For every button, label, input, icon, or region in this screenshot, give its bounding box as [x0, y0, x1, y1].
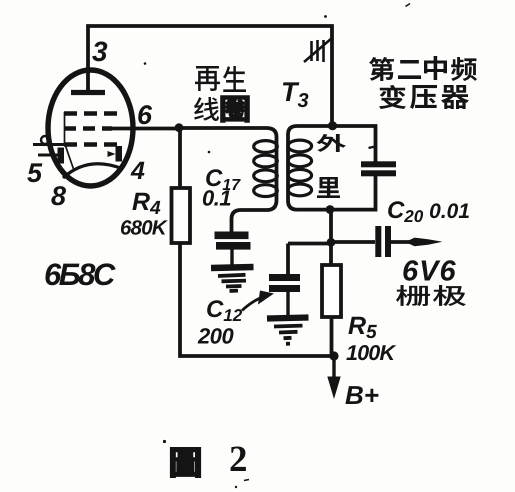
resistor R5 100K body: [322, 265, 341, 317]
label 0.1: [203, 190, 230, 206]
arrow: C12 label pointer: [242, 297, 263, 311]
B+ arrow: [332, 356, 335, 378]
capacitor C17 0.1 plates: [215, 232, 249, 240]
node A junction dot: [175, 123, 184, 132]
pin 8 label: [51, 186, 66, 205]
label R5: [348, 317, 376, 338]
T3 tank capacitor plates: [361, 161, 396, 167]
wire: junction A down to R4: [178, 128, 182, 188]
capacitor C12 200 plates: [269, 274, 300, 281]
tube grid dashed row 2 (control grid): [64, 126, 112, 130]
IF transformer T3 winding (right) with tank capacitor: [288, 126, 376, 210]
wire: C17 to ground: [230, 249, 233, 265]
char 6: [410, 85, 437, 109]
wire: down to C12: [286, 244, 290, 275]
char 4: [221, 96, 249, 122]
char 5: [379, 85, 406, 109]
pin 5 label: [27, 163, 42, 182]
label li (inner): [317, 177, 340, 198]
wire: R4 bottom down and along bottom rail to B+ node: [180, 243, 334, 356]
tube plate (anode) bar: [71, 90, 105, 95]
node: T3 bottom junction dot: [326, 205, 335, 214]
wire: node B left to C12: [288, 242, 331, 246]
label zaisheng-xianquan (regen coil) char 1: [195, 66, 220, 91]
tube type label 6B8C: [45, 263, 115, 285]
char 4: [451, 57, 477, 81]
wire: pin6 (control grid) to junction A: [108, 127, 179, 131]
char 2: [223, 66, 246, 92]
pin 4 label: [131, 162, 145, 179]
wire: C12 to ground: [286, 292, 289, 315]
grid-cap lead (row3 to left, with curl): [33, 143, 64, 146]
caption figure number 2: [231, 447, 246, 471]
tube grid dashed row 3: [64, 142, 117, 146]
wire: C20 to 6V6 grid arrow: [391, 240, 416, 244]
tube V1 6B8C envelope: [48, 70, 133, 186]
regeneration coil L1 (left winding): [179, 128, 277, 232]
node: B+ junction dot: [329, 351, 338, 360]
label 2nd IF transformer char 1: [369, 57, 394, 81]
print speck top right: [406, 4, 411, 7]
wire: R5 bottom to B+ node: [330, 317, 334, 356]
capacitor C20 0.01 plates: [375, 226, 381, 257]
tube grid dashed row 1: [64, 111, 117, 115]
label C12: [207, 300, 242, 321]
char 3: [194, 97, 219, 121]
label 6V6: [403, 260, 455, 281]
left diode plate (pin5): [58, 148, 65, 164]
ground (C12): [267, 318, 309, 319]
resistor R4 680K body: [172, 188, 191, 243]
label C17: [206, 169, 241, 190]
wire: T3 bottom down to node B: [329, 210, 333, 243]
pin 3 label: [92, 41, 107, 61]
label T3: [283, 82, 308, 107]
label grid char 1: [396, 285, 430, 306]
print speck near caption: [163, 440, 166, 443]
char 7: [441, 85, 469, 109]
char 3: [424, 56, 447, 80]
node B junction dot: [327, 238, 336, 247]
pin5 lead wire: [38, 154, 58, 157]
label 100K: [346, 345, 396, 360]
label wai (outer): [317, 134, 347, 152]
label C20 0.01: [388, 201, 469, 222]
shield hatch mark on T3 drop wire: [304, 38, 332, 62]
label B+: [345, 386, 378, 404]
tube internal thin connect line: [65, 112, 74, 169]
label 680K: [121, 220, 168, 235]
ground (C17): [211, 267, 254, 268]
pin 6 label: [138, 105, 152, 124]
char 2: [398, 60, 421, 79]
tube cathode arc: [63, 164, 123, 178]
right diode plate (pin4): [116, 146, 123, 162]
wire: plate pin3 lead, top wire, and drop to T3 top: [88, 26, 332, 123]
caption figure char: [171, 448, 200, 477]
wire: node B down to R5: [329, 242, 333, 265]
node: T3 top junction dot: [328, 121, 337, 130]
label grid char 2: [433, 285, 466, 306]
label 200: [198, 328, 234, 344]
wire: node B to C20: [331, 240, 375, 244]
label R4: [132, 193, 160, 214]
